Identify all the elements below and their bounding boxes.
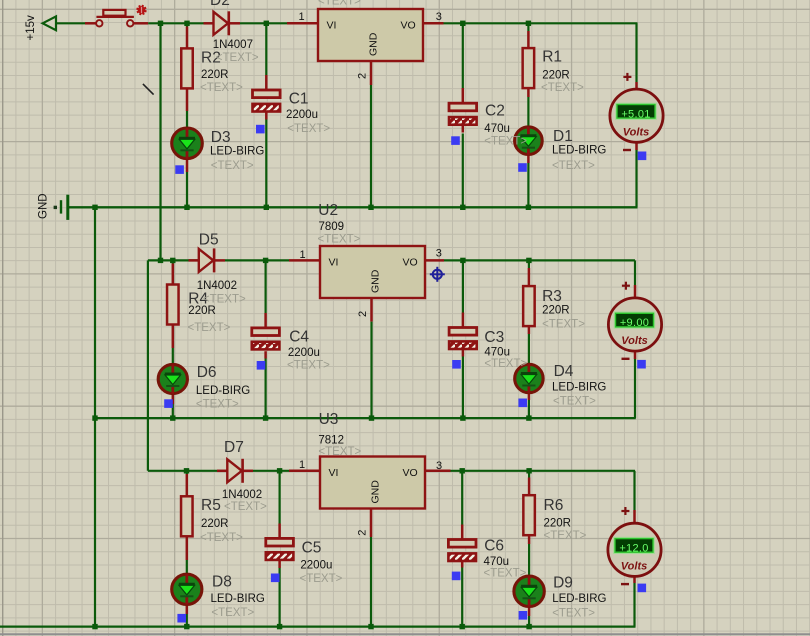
svg-text:<TEXT>: <TEXT> xyxy=(287,360,330,372)
svg-text:<TEXT>: <TEXT> xyxy=(203,294,246,306)
svg-text:2: 2 xyxy=(357,73,369,79)
svg-text:1: 1 xyxy=(299,459,305,471)
svg-text:<TEXT>: <TEXT> xyxy=(287,123,330,135)
svg-text:D8: D8 xyxy=(212,573,232,590)
svg-text:VI: VI xyxy=(327,20,337,32)
svg-text:R6: R6 xyxy=(544,497,564,514)
svg-text:D9: D9 xyxy=(553,575,573,592)
svg-text:<TEXT>: <TEXT> xyxy=(484,136,527,148)
svg-text:+12.0: +12.0 xyxy=(619,542,648,554)
svg-text:Volts: Volts xyxy=(621,560,648,572)
svg-text:<TEXT>: <TEXT> xyxy=(553,395,596,407)
svg-text:3: 3 xyxy=(436,460,442,472)
svg-text:D4: D4 xyxy=(554,363,574,380)
svg-text:GND: GND xyxy=(38,193,50,219)
svg-text:470u: 470u xyxy=(484,123,510,135)
svg-text:<TEXT>: <TEXT> xyxy=(318,446,361,458)
svg-text:2: 2 xyxy=(357,311,369,317)
svg-text:R3: R3 xyxy=(542,288,562,305)
svg-text:R1: R1 xyxy=(542,49,562,66)
svg-text:C6: C6 xyxy=(484,538,504,555)
svg-text:LED-BIRG: LED-BIRG xyxy=(196,385,250,397)
svg-text:GND: GND xyxy=(368,32,380,56)
svg-text:1N4002: 1N4002 xyxy=(222,489,262,501)
svg-text:3: 3 xyxy=(436,11,442,23)
svg-text:D7: D7 xyxy=(224,439,244,456)
svg-text:220R: 220R xyxy=(544,518,572,530)
svg-text:D3: D3 xyxy=(211,129,231,146)
svg-text:7812: 7812 xyxy=(318,434,344,446)
svg-text:<TEXT>: <TEXT> xyxy=(211,160,254,172)
svg-text:C5: C5 xyxy=(302,540,322,557)
svg-text:1: 1 xyxy=(300,249,306,261)
svg-text:<TEXT>: <TEXT> xyxy=(216,52,259,64)
svg-text:470u: 470u xyxy=(484,556,510,568)
svg-text:<TEXT>: <TEXT> xyxy=(552,160,595,172)
svg-text:220R: 220R xyxy=(542,70,570,82)
svg-text:<TEXT>: <TEXT> xyxy=(484,358,527,370)
svg-text:220R: 220R xyxy=(201,69,229,81)
svg-text:VI: VI xyxy=(329,257,339,269)
svg-text:3: 3 xyxy=(436,247,442,259)
svg-text:+9.00: +9.00 xyxy=(620,317,649,329)
svg-text:C4: C4 xyxy=(289,328,309,345)
svg-text:C3: C3 xyxy=(484,329,504,346)
svg-text:U2: U2 xyxy=(318,202,338,219)
svg-text:LED-BIRG: LED-BIRG xyxy=(211,593,265,605)
svg-text:D2: D2 xyxy=(210,0,230,9)
svg-text:+5.01: +5.01 xyxy=(621,108,650,120)
svg-text:C2: C2 xyxy=(485,103,505,120)
svg-text:LED-BIRG: LED-BIRG xyxy=(552,593,606,605)
svg-text:2200u: 2200u xyxy=(288,347,320,359)
svg-text:GND: GND xyxy=(370,480,382,504)
svg-text:D1: D1 xyxy=(553,128,573,145)
svg-text:<TEXT>: <TEXT> xyxy=(224,501,267,513)
svg-text:2200u: 2200u xyxy=(286,109,318,121)
svg-text:<TEXT>: <TEXT> xyxy=(541,82,584,94)
svg-text:220R: 220R xyxy=(542,305,570,317)
svg-text:Volts: Volts xyxy=(623,126,650,138)
svg-text:C1: C1 xyxy=(289,91,309,108)
svg-text:220R: 220R xyxy=(201,518,229,530)
svg-text:<TEXT>: <TEXT> xyxy=(552,607,595,619)
svg-text:<TEXT>: <TEXT> xyxy=(318,234,361,246)
svg-text:GND: GND xyxy=(370,269,382,293)
svg-text:<TEXT>: <TEXT> xyxy=(318,0,361,8)
svg-text:<TEXT>: <TEXT> xyxy=(188,322,231,334)
svg-text:7809: 7809 xyxy=(319,221,345,233)
svg-text:VI: VI xyxy=(329,467,339,479)
svg-text:2: 2 xyxy=(357,530,369,536)
svg-text:D5: D5 xyxy=(199,232,219,249)
svg-text:VO: VO xyxy=(403,467,418,479)
svg-text:2200u: 2200u xyxy=(300,560,332,572)
svg-text:LED-BIRG: LED-BIRG xyxy=(552,145,606,157)
svg-text:+15v: +15v xyxy=(25,15,37,41)
svg-text:<TEXT>: <TEXT> xyxy=(300,573,343,585)
svg-text:U3: U3 xyxy=(319,411,339,428)
svg-text:<TEXT>: <TEXT> xyxy=(484,567,527,579)
svg-text:<TEXT>: <TEXT> xyxy=(544,530,587,542)
svg-text:1: 1 xyxy=(299,11,305,23)
svg-text:470u: 470u xyxy=(484,346,510,358)
svg-text:<TEXT>: <TEXT> xyxy=(211,607,254,619)
svg-text:R5: R5 xyxy=(201,497,221,514)
svg-text:<TEXT>: <TEXT> xyxy=(542,318,585,330)
svg-text:220R: 220R xyxy=(188,305,216,317)
svg-text:VO: VO xyxy=(403,257,418,269)
svg-text:<TEXT>: <TEXT> xyxy=(200,532,243,544)
svg-text:<TEXT>: <TEXT> xyxy=(200,82,243,94)
svg-text:LED-BIRG: LED-BIRG xyxy=(210,146,264,158)
svg-text:LED-BIRG: LED-BIRG xyxy=(552,382,606,394)
svg-text:VO: VO xyxy=(401,20,416,32)
svg-text:Volts: Volts xyxy=(621,335,648,347)
svg-text:D6: D6 xyxy=(197,364,217,381)
svg-text:<TEXT>: <TEXT> xyxy=(196,398,239,410)
